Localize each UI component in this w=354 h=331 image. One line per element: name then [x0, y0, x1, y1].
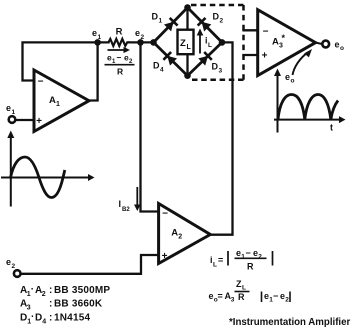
svg-text:2: 2 — [42, 291, 46, 298]
svg-text:+: + — [162, 251, 168, 262]
current arrow iL — [199, 33, 201, 54]
op-amp A2 — [159, 204, 211, 264]
parts list line 1 — [20, 284, 110, 298]
input sine curve — [11, 157, 65, 198]
terminal e2 — [14, 270, 21, 277]
wire e2 terminal to A2 + input — [21, 255, 159, 274]
terminal e_o — [316, 43, 323, 44]
svg-text:A: A — [49, 95, 56, 106]
svg-text:BB 3660K: BB 3660K — [54, 299, 103, 310]
svg-text:R: R — [116, 27, 123, 38]
svg-text:Z: Z — [180, 38, 186, 49]
svg-text:e: e — [285, 72, 290, 82]
wire A1 output to node e1 — [89, 42, 98, 100]
wire e1 input to A1 + — [15, 119, 34, 121]
svg-text:+: + — [262, 50, 268, 61]
op-amp A3 — [258, 10, 316, 76]
svg-text:o: o — [340, 45, 344, 52]
svg-text:BB 3500MP: BB 3500MP — [54, 285, 110, 296]
svg-text::: : — [49, 285, 53, 296]
svg-text:2: 2 — [141, 34, 145, 41]
svg-text:e: e — [335, 40, 340, 50]
diode D3 — [198, 52, 222, 75]
svg-text:1: 1 — [56, 101, 60, 108]
svg-text:D: D — [212, 62, 219, 72]
svg-text:R: R — [238, 292, 245, 302]
svg-text:1: 1 — [12, 109, 16, 116]
svg-text:D: D — [20, 313, 27, 324]
svg-text:e: e — [6, 257, 11, 267]
svg-text:3: 3 — [27, 305, 31, 312]
node top vertex — [184, 4, 191, 11]
svg-text:o: o — [291, 78, 295, 85]
svg-text:D: D — [153, 61, 160, 71]
svg-text:3: 3 — [231, 297, 235, 304]
diode D1 — [152, 12, 178, 32]
equation e_o — [209, 279, 291, 304]
diode D4 — [153, 52, 177, 74]
svg-text:R: R — [247, 262, 254, 272]
svg-text:−: − — [273, 291, 278, 301]
svg-text:2: 2 — [258, 254, 262, 261]
svg-text:−: − — [117, 53, 122, 63]
op-amp A1 — [34, 70, 89, 132]
svg-text:D: D — [35, 313, 42, 324]
svg-text::: : — [49, 313, 53, 324]
svg-text:A: A — [272, 37, 279, 48]
svg-text:−: − — [162, 209, 168, 220]
svg-text:−: − — [263, 27, 269, 38]
svg-text:L: L — [213, 262, 217, 269]
node e2 — [137, 39, 144, 46]
svg-text:−: − — [246, 248, 251, 258]
svg-text:4: 4 — [160, 67, 164, 74]
svg-text::: : — [49, 299, 53, 310]
svg-text:D: D — [152, 12, 159, 22]
equation i_L — [210, 248, 273, 272]
svg-text:e: e — [6, 103, 11, 113]
svg-text:R: R — [117, 67, 123, 77]
svg-text:3: 3 — [279, 43, 283, 50]
svg-text:e: e — [209, 291, 214, 301]
svg-text:*: * — [282, 33, 286, 43]
svg-text:=: = — [218, 291, 223, 301]
node e1 — [94, 39, 101, 46]
svg-text:4: 4 — [42, 319, 46, 326]
diode D2 — [198, 12, 224, 32]
wire node e2 down to A2 - input — [141, 42, 159, 211]
svg-text:L: L — [242, 284, 246, 291]
svg-text:·: · — [31, 284, 35, 295]
wire bridge center through ZL — [186, 8, 188, 76]
node right vertex — [219, 39, 226, 46]
bias current arrow I_B2 — [136, 187, 138, 207]
input sine waveform axes — [1, 136, 90, 207]
svg-text:e: e — [264, 291, 269, 301]
svg-text:1: 1 — [98, 34, 102, 41]
parts list line 3 — [20, 312, 90, 326]
svg-text:L: L — [208, 42, 212, 49]
svg-text:3: 3 — [219, 68, 223, 75]
output waveform axes — [274, 74, 341, 133]
svg-text:t: t — [330, 123, 333, 133]
svg-text:L: L — [187, 44, 192, 51]
svg-text:1: 1 — [159, 18, 163, 25]
svg-text:e: e — [236, 248, 241, 258]
wire A2 output up to bridge right vertex — [210, 42, 232, 234]
bridge diamond wires — [154, 8, 223, 76]
svg-text:2: 2 — [285, 297, 289, 304]
svg-text:2: 2 — [12, 263, 16, 270]
resistor R — [109, 39, 130, 46]
svg-text:2: 2 — [178, 234, 182, 241]
dashed enclosure — [191, 4, 244, 7]
load ZL box — [178, 30, 194, 55]
svg-text:1N4154: 1N4154 — [54, 313, 90, 324]
current arrow (e1-e2)/R — [105, 47, 135, 77]
svg-text:B2: B2 — [122, 207, 130, 213]
svg-text:e: e — [280, 291, 285, 301]
svg-text:2: 2 — [220, 18, 224, 25]
wire A1 feedback top rail — [23, 42, 109, 80]
svg-text:−: − — [38, 77, 44, 88]
svg-text:e: e — [135, 28, 140, 38]
wire A3 input stubs — [244, 30, 258, 55]
svg-text:=: = — [218, 255, 223, 265]
output rectified waveform — [278, 95, 338, 120]
svg-text:D: D — [213, 12, 220, 22]
svg-text:A: A — [171, 228, 178, 239]
svg-text:e: e — [92, 28, 97, 38]
wire resistor right lead to bridge left vertex — [129, 41, 154, 43]
node left vertex — [150, 39, 157, 46]
svg-text:·: · — [31, 312, 35, 323]
svg-text:+: + — [36, 116, 42, 127]
svg-text:e: e — [253, 248, 258, 258]
svg-text:*Instrumentation Amplifier: *Instrumentation Amplifier — [229, 317, 351, 328]
svg-text:I: I — [119, 199, 122, 209]
node bottom vertex — [184, 72, 191, 79]
terminal e1 — [9, 116, 16, 123]
parts list line 2 — [20, 299, 103, 312]
